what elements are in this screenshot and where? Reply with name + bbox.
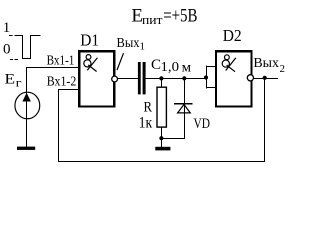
svg-text:D1: D1 — [80, 31, 99, 50]
svg-text:1к: 1к — [139, 115, 153, 132]
svg-text:Вх1-1: Вх1-1 — [47, 54, 75, 69]
svg-text:Вх1-2: Вх1-2 — [47, 75, 77, 90]
svg-text:2: 2 — [280, 63, 286, 75]
svg-text:С: С — [151, 57, 161, 73]
svg-text:1: 1 — [140, 41, 146, 53]
svg-text:Вых: Вых — [117, 36, 140, 51]
svg-text:D2: D2 — [223, 26, 242, 45]
svg-text:м: м — [182, 60, 192, 75]
svg-text:Е: Е — [5, 72, 16, 88]
svg-text:Вых: Вых — [253, 56, 279, 71]
svg-text:R: R — [144, 100, 153, 116]
svg-text:VD: VD — [194, 116, 211, 132]
svg-text:пит: пит — [142, 12, 163, 27]
svg-text:г: г — [16, 76, 22, 90]
svg-text:1,0: 1,0 — [161, 60, 180, 75]
svg-text:1: 1 — [3, 20, 11, 36]
svg-text:=+5В: =+5В — [163, 5, 197, 26]
svg-text:0: 0 — [3, 42, 11, 58]
